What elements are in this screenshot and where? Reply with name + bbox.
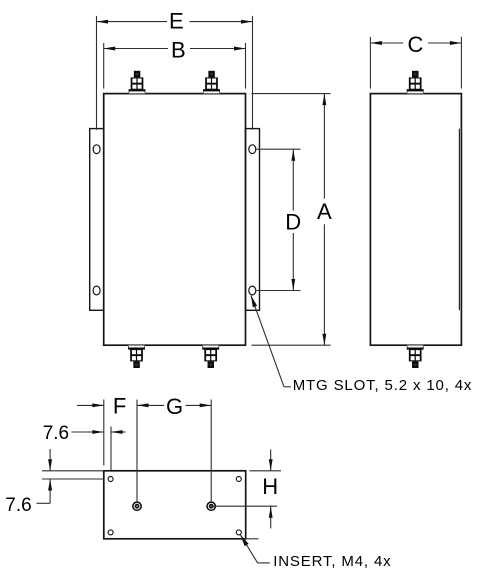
svg-text:E: E	[169, 9, 184, 34]
svg-text:B: B	[171, 38, 186, 63]
svg-text:H: H	[262, 474, 278, 499]
svg-text:INSERT, M4, 4x: INSERT, M4, 4x	[273, 553, 391, 570]
svg-text:D: D	[285, 210, 301, 235]
svg-text:F: F	[113, 394, 126, 419]
svg-text:7.6: 7.6	[5, 495, 31, 516]
svg-text:A: A	[317, 199, 332, 224]
svg-text:G: G	[166, 394, 183, 419]
svg-text:MTG SLOT, 5.2 x 10, 4x: MTG SLOT, 5.2 x 10, 4x	[293, 377, 473, 394]
svg-text:C: C	[407, 32, 423, 57]
svg-text:7.6: 7.6	[43, 423, 69, 444]
